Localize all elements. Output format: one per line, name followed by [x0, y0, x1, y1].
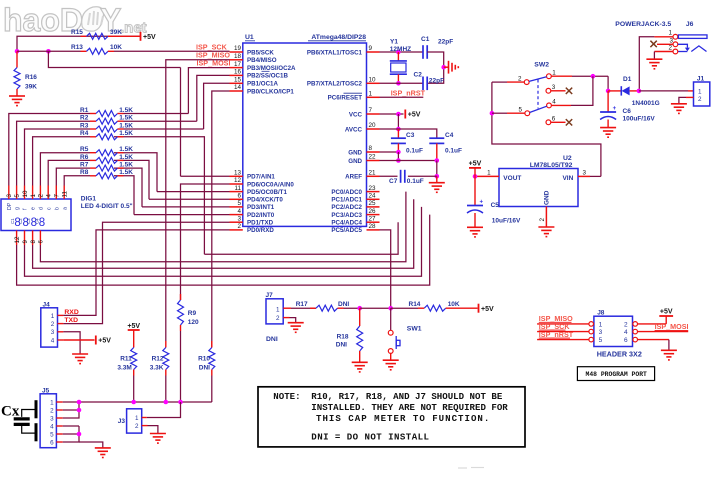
wire AREF row	[380, 175, 398, 177]
svg-text:R6: R6	[80, 154, 89, 161]
svg-text:+5V: +5V	[127, 323, 140, 330]
svg-text:10K: 10K	[448, 301, 460, 308]
svg-text:1: 1	[698, 89, 702, 96]
svg-text:2: 2	[50, 407, 54, 414]
wire SW2 pin1 to D1 column	[551, 75, 572, 77]
ground at J3	[150, 433, 166, 435]
wire R8 left to DIG1 top pin	[64, 176, 90, 186]
svg-text:3: 3	[51, 329, 55, 336]
wire R2 right stub	[124, 120, 197, 122]
svg-text:R2: R2	[80, 115, 89, 122]
capacitor C2	[422, 77, 424, 91]
power +5V at R11	[128, 329, 140, 331]
svg-text:R9: R9	[188, 310, 197, 317]
svg-text:25: 25	[369, 200, 377, 207]
svg-text:1: 1	[50, 399, 54, 406]
svg-text:PB6/XTAL1/TOSC1: PB6/XTAL1/TOSC1	[307, 49, 363, 56]
svg-text:2: 2	[276, 315, 280, 322]
svg-text:R14: R14	[409, 301, 421, 308]
svg-text:4: 4	[624, 329, 628, 336]
wire GND pin8 row	[380, 151, 399, 153]
svg-text:AREF: AREF	[345, 174, 362, 181]
svg-text:J5: J5	[42, 387, 50, 394]
svg-text:PC6/RESET: PC6/RESET	[328, 95, 363, 102]
wire SW2 pin2 rail	[507, 81, 524, 83]
svg-text:R13: R13	[71, 44, 83, 51]
svg-text:3: 3	[6, 194, 13, 198]
svg-text:1: 1	[276, 307, 280, 314]
wire R8 right to PD pin	[114, 176, 134, 215]
svg-text:C4: C4	[445, 132, 454, 139]
svg-text:C4: C4	[34, 218, 39, 224]
node VCC junction	[396, 112, 401, 117]
svg-text:39K: 39K	[25, 84, 37, 91]
svg-text:C2: C2	[414, 72, 423, 79]
svg-text:1: 1	[599, 321, 603, 328]
svg-text:C1: C1	[10, 218, 15, 224]
ground at J5	[95, 447, 111, 449]
svg-text:3.3M: 3.3M	[117, 364, 131, 371]
resistor R13	[81, 50, 87, 52]
wire PD5 row	[157, 191, 230, 193]
svg-text:21: 21	[369, 170, 377, 177]
svg-text:DP: DP	[7, 202, 13, 210]
node sense junction R9	[178, 400, 183, 405]
power +5V at VOUT	[469, 167, 481, 169]
U1 left pin 18 PB4/MISO	[230, 59, 243, 61]
wire DIG1 pin9 to PC2	[25, 207, 422, 276]
crystal Y1	[397, 52, 399, 61]
node SW2 pole junction	[591, 74, 596, 79]
svg-text:27: 27	[369, 215, 377, 222]
resistor R17	[291, 307, 316, 309]
wire PD6/AIN0 to R9	[181, 184, 230, 300]
svg-text:C3: C3	[26, 218, 31, 224]
svg-text:1.5K: 1.5K	[119, 115, 133, 122]
wire PD3 row	[142, 206, 230, 208]
node C6 junction	[606, 89, 611, 94]
wire J4 pin3 to ground	[63, 332, 80, 354]
J6 tip contact with switch arrow	[678, 44, 688, 47]
svg-text:120: 120	[188, 319, 199, 326]
connector J5	[40, 394, 56, 448]
wire GND8 to GND22	[397, 152, 399, 161]
svg-text:PD1/TXD: PD1/TXD	[247, 220, 274, 227]
node SW2 pin5 junction	[490, 111, 495, 116]
svg-text:9: 9	[369, 45, 373, 52]
power +5V at J4	[95, 336, 97, 345]
J8 pin 3 circle	[589, 329, 594, 334]
svg-text:RXD: RXD	[64, 309, 78, 316]
node AREF junction	[435, 174, 440, 179]
wire R1 left to DIG1 top pin	[9, 114, 90, 186]
svg-text:16: 16	[234, 69, 242, 76]
wire J6 pin2 to ground	[654, 51, 673, 53]
svg-text:LED 4-DIGIT 0.5": LED 4-DIGIT 0.5"	[81, 203, 133, 210]
wire Cx sense net	[79, 401, 212, 403]
op-amp U1 ATmega48 box	[243, 43, 367, 226]
svg-text:17: 17	[234, 61, 242, 68]
svg-text:4: 4	[46, 194, 53, 198]
J6 sleeve contact	[678, 35, 707, 39]
svg-text:5: 5	[599, 337, 603, 344]
U2 pin1 wire	[475, 175, 499, 177]
svg-text:DNI: DNI	[338, 301, 349, 308]
wire D1 to J1 pin1	[639, 90, 688, 92]
SW2 pin3 no-connect	[551, 90, 566, 92]
svg-text:C7: C7	[389, 178, 398, 185]
svg-text:R11: R11	[120, 355, 132, 362]
svg-text:R18: R18	[337, 333, 349, 340]
svg-text:5: 5	[237, 200, 241, 207]
ground below C6	[600, 127, 616, 129]
wire PB4/MISO to R12 column	[166, 60, 230, 341]
wire PB3/MOSI to R1	[188, 68, 229, 114]
svg-text:2: 2	[135, 423, 139, 430]
svg-text:12MHZ: 12MHZ	[390, 46, 411, 53]
svg-text:d: d	[39, 207, 45, 210]
svg-text:J4: J4	[43, 301, 51, 308]
svg-text:7: 7	[369, 107, 373, 114]
svg-text:R5: R5	[80, 146, 89, 153]
wire PB2 to R2	[197, 75, 230, 121]
wire R1 right stub to MOSI column	[124, 113, 189, 115]
U1 right pin 23 PC0/ADC0	[367, 191, 380, 193]
svg-text:C5: C5	[491, 202, 500, 209]
U1 left pin 4 PD2/INT0	[230, 214, 243, 216]
J3 pin1 stub	[142, 417, 147, 419]
svg-text:DNI: DNI	[336, 342, 347, 349]
svg-text:J3: J3	[118, 418, 126, 425]
svg-text:e: e	[31, 207, 37, 210]
svg-text:12: 12	[14, 236, 21, 243]
svg-text:6: 6	[624, 337, 628, 344]
svg-text:+: +	[613, 106, 617, 112]
svg-text:20: 20	[369, 122, 377, 129]
svg-text:2: 2	[668, 45, 672, 52]
U1 right pin 26 PC3/ADC3	[367, 214, 380, 216]
ground below R16	[9, 95, 25, 97]
svg-text:PB3/MOSI/OC2A: PB3/MOSI/OC2A	[247, 65, 296, 72]
wire R3 right stub	[124, 128, 204, 130]
wire R4 row to PC4 bus	[114, 137, 204, 254]
svg-text:3: 3	[669, 37, 673, 44]
svg-text:1: 1	[30, 194, 37, 198]
svg-text:g: g	[15, 207, 21, 210]
svg-text:PD0/RXD: PD0/RXD	[247, 227, 274, 234]
svg-text:8: 8	[30, 240, 37, 244]
wire PD0/RXD to J4 pin1	[63, 230, 229, 316]
svg-text:R17: R17	[296, 301, 308, 308]
svg-text:0.1uF: 0.1uF	[407, 178, 424, 185]
svg-text:b: b	[54, 207, 60, 210]
svg-text:5: 5	[14, 194, 21, 198]
svg-text:PD6/OC0A/AIN0: PD6/OC0A/AIN0	[247, 181, 294, 188]
wire PB1 to R3	[204, 83, 230, 129]
U1 RESET overline	[344, 92, 363, 94]
svg-text:+5V: +5V	[469, 161, 482, 168]
ground at J4 pin3	[72, 353, 88, 355]
resistor R5	[90, 152, 96, 154]
svg-text:+5V: +5V	[481, 306, 494, 313]
node sense junction R11	[131, 400, 136, 405]
wire J8 pin6 to ground	[638, 339, 669, 341]
ground below U2	[538, 226, 554, 228]
svg-text:6: 6	[50, 439, 54, 446]
ground right-pointing at crystal	[444, 66, 449, 68]
svg-text:PC5/ADC5: PC5/ADC5	[331, 227, 362, 234]
wire GND22 row to C4	[380, 160, 437, 162]
watermark haoDY.net logo	[3, 2, 147, 38]
wire PD7/AIN1 to divider tee	[180, 68, 182, 177]
resistor R6	[90, 159, 96, 161]
node SW1 junction	[388, 306, 393, 311]
svg-text:13: 13	[234, 170, 242, 177]
wire VCC to AVCC	[397, 114, 399, 129]
resistor R1	[90, 113, 96, 115]
svg-text:8: 8	[369, 145, 373, 152]
SW2 arm 5-4	[530, 106, 547, 112]
node J5 pin1 junction	[77, 400, 82, 405]
ground below C5	[467, 226, 483, 228]
svg-text:3: 3	[50, 415, 54, 422]
resistor R14	[391, 307, 418, 309]
wire C4 to AREF row	[436, 161, 438, 177]
svg-text:+: +	[480, 200, 484, 206]
wire R5 left to DIG1 top pin	[40, 153, 90, 186]
svg-text:1: 1	[487, 170, 491, 177]
wire J6 pin1 to D1 node	[654, 36, 673, 38]
U1 left pin 14 PB0/CLKO/ICP1	[230, 90, 243, 92]
wire R2 left to DIG1 top pin	[17, 121, 90, 185]
node R17 junction	[357, 306, 362, 311]
svg-text:1: 1	[369, 91, 373, 98]
connector J4	[41, 308, 58, 347]
svg-text:1.5K: 1.5K	[119, 122, 133, 129]
regulator U2 LM78L05	[499, 169, 578, 207]
ground at J8 pin6	[661, 349, 677, 351]
wire AREF ground stem	[436, 176, 438, 182]
svg-text:DIG1: DIG1	[81, 196, 97, 203]
svg-text:C6: C6	[623, 108, 632, 115]
node crystal ground tap	[441, 65, 446, 70]
J8 pin 5 circle	[589, 337, 594, 342]
svg-text:4: 4	[50, 423, 54, 430]
svg-text:R10: R10	[198, 355, 210, 362]
svg-text:LM78L05/T92: LM78L05/T92	[530, 162, 573, 169]
svg-text:PD3/INT1: PD3/INT1	[247, 204, 275, 211]
note box	[258, 387, 525, 447]
svg-text:39K: 39K	[110, 29, 122, 36]
wire SW2 pin5 stub	[507, 112, 525, 114]
wire J8 pin4 ISP_MOSI	[638, 331, 689, 333]
capacitor C6 electrolytic	[607, 91, 609, 112]
resistor R18	[359, 308, 361, 326]
wire XTAL1 row	[380, 51, 424, 53]
svg-text:11: 11	[234, 185, 241, 192]
U1 right pin 22 GND	[367, 160, 380, 162]
svg-text:THIS CAP METER TO FUNCTION.: THIS CAP METER TO FUNCTION.	[316, 413, 490, 424]
resistor R4	[90, 136, 96, 138]
connector J1	[694, 82, 710, 106]
svg-text:1: 1	[552, 70, 556, 77]
ground at J7 pin2	[288, 322, 304, 324]
U1 left pin 11 PD5/OC0B/T1	[230, 191, 243, 193]
svg-text:Y1: Y1	[390, 39, 398, 46]
svg-text:ATmega48/DIP28: ATmega48/DIP28	[311, 34, 366, 41]
node XTAL1 junction	[396, 50, 401, 55]
svg-text:14: 14	[234, 84, 242, 91]
svg-text:ISP_MOSI: ISP_MOSI	[655, 322, 689, 331]
SW2 arm 2-1	[529, 77, 547, 82]
svg-text:PB7/XTAL2/TOSC2: PB7/XTAL2/TOSC2	[307, 81, 363, 88]
wire DIG1 pin12 to PC3	[17, 215, 430, 286]
svg-text:3: 3	[237, 215, 241, 222]
U1 left pin 15 PB1/OC1A	[230, 82, 243, 84]
resistor R7	[90, 167, 96, 169]
svg-text:VIN: VIN	[562, 175, 573, 182]
wire R3 left to DIG1 top pin	[25, 129, 91, 186]
wire AVCC row to C4 column	[380, 129, 437, 138]
resistor R8	[90, 175, 96, 177]
wire PC6/RESET stub	[380, 96, 424, 98]
svg-text:0.1uF: 0.1uF	[406, 148, 423, 155]
wire PC5 to SW1 net	[380, 230, 391, 308]
U1 left pin 5 PD3/INT1	[230, 206, 243, 208]
svg-text:10: 10	[22, 190, 29, 197]
node sense junction R12	[164, 400, 169, 405]
svg-text:DNI: DNI	[199, 364, 210, 371]
svg-text:R4: R4	[80, 130, 89, 137]
wire R13 row to ISP_SCK pin 19	[17, 50, 81, 52]
SW2 dashed link	[537, 80, 539, 109]
wire PD4 row	[149, 198, 230, 200]
svg-text:PB2/SS/OC1B: PB2/SS/OC1B	[247, 73, 288, 80]
svg-text:+5V: +5V	[98, 338, 111, 345]
svg-text:1: 1	[135, 415, 139, 422]
ground below SW1	[383, 359, 399, 361]
resistor R10	[211, 341, 213, 348]
svg-text:VOUT: VOUT	[503, 175, 521, 182]
svg-text:J1: J1	[697, 76, 705, 83]
power +5V at R14	[478, 304, 480, 313]
SW2 pin6 no-connect	[551, 121, 566, 123]
label M48 PROGRAM PORT	[577, 367, 654, 381]
svg-text:1.5K: 1.5K	[119, 146, 133, 153]
connector J8 HEADER 3X2	[594, 316, 633, 346]
connector J3	[127, 409, 142, 433]
U1 right pin 8 GND	[367, 151, 380, 153]
svg-text:TXD: TXD	[64, 317, 78, 324]
svg-text:5: 5	[50, 431, 54, 438]
ground at J6 pin2	[646, 58, 662, 60]
capacitor Cx under test	[14, 400, 36, 441]
J6 pin1 circle	[673, 34, 678, 39]
node J5 pin2 junction	[77, 408, 82, 413]
svg-text:6: 6	[237, 193, 241, 200]
J8 pin 4 circle	[633, 329, 638, 334]
svg-text:PD5/OC0B/T1: PD5/OC0B/T1	[247, 189, 287, 196]
svg-text:R10, R17, R18, AND J7 SHOULD N: R10, R17, R18, AND J7 SHOULD NOT BE	[311, 391, 503, 402]
svg-text:PC1/ADC1: PC1/ADC1	[331, 197, 362, 204]
wire J5 pins 1-3 tie	[63, 401, 79, 403]
svg-text:VCC: VCC	[349, 111, 363, 118]
wire DIG1 pin6 to PC0	[40, 192, 406, 262]
capacitor C5 electrolytic	[474, 176, 476, 205]
svg-text:100uF/16V: 100uF/16V	[623, 115, 656, 122]
J7 pin1 stub	[283, 307, 291, 309]
svg-text:3: 3	[583, 170, 587, 177]
svg-text:PD4/XCK/T0: PD4/XCK/T0	[247, 197, 283, 204]
svg-text:C2: C2	[18, 218, 23, 224]
svg-text:SW1: SW1	[407, 325, 422, 332]
svg-text:PC2/ADC2: PC2/ADC2	[331, 204, 362, 211]
wire C1 to ground rail	[427, 52, 444, 83]
svg-text:23: 23	[369, 185, 377, 192]
capacitor C7	[400, 170, 402, 183]
wire R4 left to DIG1 top pin	[33, 137, 90, 186]
svg-text:a: a	[62, 207, 68, 210]
U1 left pin 19 PB5/SCK	[230, 51, 243, 53]
svg-text:NOTE:: NOTE:	[273, 391, 300, 402]
svg-text:0.1uF: 0.1uF	[445, 148, 462, 155]
svg-text:GND: GND	[544, 190, 551, 205]
DIG1 top pin stubs	[8, 186, 10, 200]
svg-text:1N4001G: 1N4001G	[632, 100, 660, 107]
svg-text:1.5K: 1.5K	[119, 107, 133, 114]
resistor R12	[165, 341, 167, 348]
resistor R3	[90, 128, 96, 130]
svg-text:4: 4	[552, 99, 556, 106]
wire J5 pins 4-6 tie to ground	[63, 425, 79, 427]
node VOUT junction	[473, 174, 478, 179]
J8 pin 2 circle	[633, 322, 638, 327]
wire J3 pin2 to ground	[142, 425, 148, 427]
svg-text:18: 18	[234, 53, 242, 60]
U1 right pin 10 PB7/XTAL2/TOSC2	[367, 82, 380, 84]
wire ISP_nRST stub	[537, 339, 589, 341]
display DIG1 LED 4-digit	[1, 199, 71, 231]
node C4 bottom junction	[435, 158, 440, 163]
svg-text:AVCC: AVCC	[345, 126, 363, 133]
wire R6 left to DIG1 top pin	[48, 160, 90, 185]
svg-text:R7: R7	[80, 162, 89, 169]
wire ISP_MISO stub	[537, 323, 589, 325]
node divider junction dots	[15, 49, 20, 54]
svg-text:28: 28	[369, 223, 377, 230]
node AVCC junction	[396, 127, 401, 132]
svg-text:9: 9	[22, 240, 29, 244]
svg-text:GND: GND	[348, 149, 362, 156]
svg-text:c: c	[46, 207, 52, 210]
svg-text:R16: R16	[25, 74, 37, 81]
svg-text:15: 15	[234, 77, 242, 84]
svg-text:PC0/ADC0: PC0/ADC0	[331, 189, 362, 196]
svg-text:19: 19	[234, 45, 242, 52]
wire SW2 common rail to U2 VIN	[492, 82, 601, 176]
node XTAL2 junction	[396, 81, 401, 86]
wire PB0 to R10 column	[212, 91, 230, 348]
wire R4 bus to PC4	[204, 222, 398, 254]
U1 right pin 21 AREF	[367, 175, 380, 177]
faint artifact marks	[458, 467, 467, 469]
wire R5 right to PD pin	[114, 153, 157, 192]
svg-text:PB0/CLKO/ICP1: PB0/CLKO/ICP1	[247, 88, 294, 95]
power +5V at VCC	[404, 110, 406, 119]
wire J7 pin2 to ground	[283, 317, 289, 319]
svg-text:12: 12	[234, 177, 242, 184]
svg-text:DNI: DNI	[266, 336, 278, 343]
